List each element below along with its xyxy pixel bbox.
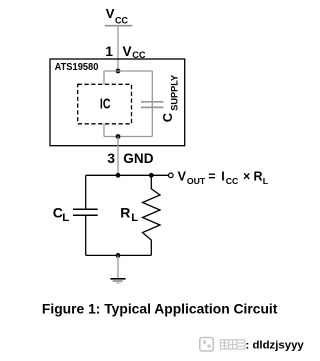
svg-text:L: L (263, 176, 269, 186)
label RL (120, 205, 138, 225)
IC internal block (dashed) (78, 84, 132, 124)
svg-text:CSUPPLY: CSUPPLY (160, 75, 180, 122)
svg-text:IC: IC (100, 97, 111, 113)
pin name VCC (123, 44, 146, 60)
svg-text:L: L (131, 212, 138, 224)
svg-text:Figure 1: Typical Application: Figure 1: Typical Application Circuit (42, 301, 278, 316)
watermark text weixin id (220, 340, 304, 352)
svg-text:GND: GND (123, 151, 153, 166)
wire capacitor branch vertical (151, 71, 153, 137)
terminal VOUT (open circle) (169, 173, 174, 178)
svg-text:×: × (243, 169, 250, 183)
wire top rail to IC (103, 71, 105, 84)
wire VCC bar to pin 1 node (117, 26, 119, 71)
wire pin 3 to output rail (117, 137, 119, 176)
svg-text:V: V (123, 44, 132, 59)
svg-text:R: R (120, 205, 130, 221)
net VCC supply label (106, 6, 129, 26)
device box U1 ATS19580 (50, 59, 185, 146)
svg-text:L: L (62, 212, 69, 224)
node A junction dot (pin1 internal) (116, 69, 121, 74)
svg-text:V: V (178, 169, 187, 183)
wire IC to bottom rail (103, 124, 105, 137)
svg-text:R: R (254, 169, 263, 183)
node junction dot ground (116, 253, 121, 258)
wire output bottom rail (86, 254, 152, 256)
watermark icon (200, 338, 214, 352)
capacitor CL plates (73, 209, 98, 215)
node junction dot pin3/rail (116, 173, 121, 178)
svg-text:V: V (106, 6, 115, 21)
power rail bar VCC (105, 25, 133, 27)
svg-text:3: 3 (107, 151, 115, 166)
svg-text:ATS19580: ATS19580 (55, 61, 99, 73)
wire CL branch bottom (85, 216, 87, 256)
wire CL branch top (85, 175, 87, 209)
label CL (53, 205, 70, 225)
svg-text:CC: CC (115, 16, 128, 26)
svg-text:CC: CC (226, 176, 239, 186)
wire output top rail (86, 174, 169, 176)
wire internal top rail (104, 70, 152, 72)
node B junction dot (pin3 internal) (116, 134, 121, 139)
capacitor C_SUPPLY plates (141, 102, 163, 108)
node junction dot RL top (149, 173, 154, 178)
label C SUPPLY (rotated) (160, 75, 180, 122)
svg-text:I: I (221, 169, 224, 183)
label VOUT = ICC x RL (178, 169, 269, 186)
svg-text:: dldzjsyyy: : dldzjsyyy (246, 340, 305, 352)
wire ground stem (117, 255, 119, 278)
resistor RL (143, 175, 161, 255)
svg-text:=: = (208, 169, 215, 183)
svg-text:OUT: OUT (187, 176, 206, 186)
svg-text:1: 1 (105, 44, 113, 59)
ground symbol (110, 279, 125, 283)
wire internal bottom rail (104, 136, 152, 138)
